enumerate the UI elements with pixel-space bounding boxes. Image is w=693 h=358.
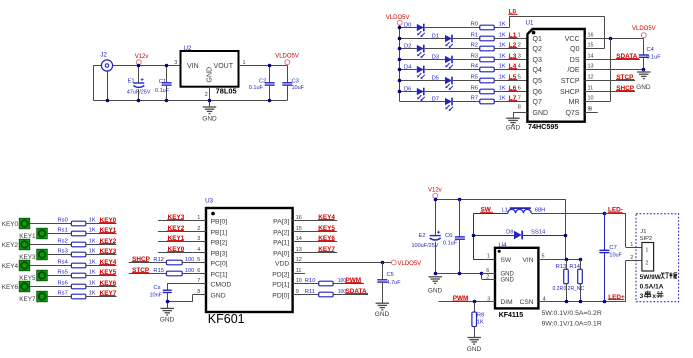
svg-text:2: 2 <box>205 92 208 98</box>
svg-text:VLDO5V: VLDO5V <box>632 26 656 32</box>
svg-text:1K: 1K <box>499 74 506 80</box>
svg-text:10: 10 <box>588 96 594 102</box>
svg-text:R10: R10 <box>305 278 316 284</box>
svg-text:100: 100 <box>185 257 194 263</box>
svg-text:2: 2 <box>518 43 521 49</box>
svg-text:GND: GND <box>207 67 214 83</box>
svg-text:D6: D6 <box>404 86 411 92</box>
svg-text:10uF: 10uF <box>609 253 622 259</box>
svg-text:D3: D3 <box>432 54 439 60</box>
svg-text:x: x <box>652 293 656 300</box>
svg-text:PC[1]: PC[1] <box>211 272 228 279</box>
svg-text:3: 3 <box>518 54 521 60</box>
svg-text:KF601: KF601 <box>208 312 245 326</box>
svg-text:4: 4 <box>543 297 546 303</box>
svg-text:D4: D4 <box>404 64 412 70</box>
svg-text:Q1: Q1 <box>533 36 542 43</box>
svg-text:5W/9W: 5W/9W <box>640 274 662 281</box>
svg-text:1K: 1K <box>89 269 96 275</box>
svg-text:Q7: Q7 <box>533 99 542 106</box>
svg-text:0.1uF: 0.1uF <box>443 240 458 246</box>
svg-text:J2: J2 <box>100 51 107 58</box>
svg-text:Rs2: Rs2 <box>58 238 68 244</box>
svg-text:1K: 1K <box>89 238 96 244</box>
svg-text:C1: C1 <box>159 79 166 85</box>
svg-text:C2: C2 <box>259 78 266 84</box>
svg-text:U2: U2 <box>184 45 192 52</box>
svg-text:R13: R13 <box>556 264 567 270</box>
svg-text:C7: C7 <box>609 245 616 251</box>
svg-text:Q6: Q6 <box>533 89 542 96</box>
svg-text:1K: 1K <box>89 217 96 223</box>
svg-text:PA[1]: PA[1] <box>273 240 289 247</box>
svg-text:D8: D8 <box>506 230 513 236</box>
svg-text:1K: 1K <box>89 280 96 286</box>
svg-text:VDD: VDD <box>275 261 289 268</box>
svg-text:C3: C3 <box>292 78 299 84</box>
svg-text:0.5A/1A: 0.5A/1A <box>640 284 664 291</box>
svg-text:R1: R1 <box>471 32 478 38</box>
svg-text:PB[3]: PB[3] <box>211 251 228 258</box>
svg-text:0.2R: 0.2R <box>553 286 564 292</box>
svg-text:10nF: 10nF <box>150 292 163 298</box>
svg-text:1K: 1K <box>89 290 96 296</box>
svg-text:Q7S: Q7S <box>565 110 579 117</box>
svg-text:2: 2 <box>630 255 633 261</box>
svg-text:R4: R4 <box>471 63 479 69</box>
svg-text:SW: SW <box>501 257 512 264</box>
svg-text:11: 11 <box>588 86 594 92</box>
svg-text:9W:0.1V/1.0A=0.1R: 9W:0.1V/1.0A=0.1R <box>542 321 602 328</box>
svg-text:PD[2]: PD[2] <box>272 272 289 279</box>
svg-text:GND: GND <box>202 116 217 123</box>
svg-text:VLDO5V: VLDO5V <box>398 261 422 267</box>
svg-text:1K: 1K <box>89 248 96 254</box>
svg-text:100uF/25V: 100uF/25V <box>412 243 439 249</box>
svg-text:PD[1]: PD[1] <box>272 282 289 289</box>
svg-text:R0: R0 <box>471 21 478 27</box>
svg-text:5: 5 <box>518 75 521 81</box>
svg-text:PA[0]: PA[0] <box>273 251 289 258</box>
svg-text:VIN: VIN <box>187 63 199 70</box>
svg-text:1K: 1K <box>89 227 96 233</box>
svg-text:R7: R7 <box>471 95 478 101</box>
svg-text:13: 13 <box>588 64 594 70</box>
svg-text:Rs5: Rs5 <box>58 269 68 275</box>
svg-text:GND: GND <box>533 110 549 117</box>
svg-text:CMOD: CMOD <box>211 282 232 289</box>
svg-text:MR: MR <box>569 99 580 106</box>
svg-text:1: 1 <box>630 242 633 248</box>
svg-text:PA[2]: PA[2] <box>273 230 289 237</box>
svg-text:D2: D2 <box>404 43 411 49</box>
svg-text:Rs4: Rs4 <box>58 259 69 265</box>
svg-text:GND: GND <box>636 84 651 91</box>
svg-text:1: 1 <box>243 60 246 66</box>
svg-text:1K: 1K <box>499 53 506 59</box>
svg-text:Cs: Cs <box>154 285 161 291</box>
svg-text:4.7uF: 4.7uF <box>387 280 402 286</box>
svg-text:1: 1 <box>487 254 490 260</box>
svg-text:L1: L1 <box>502 208 508 214</box>
svg-text:STCP: STCP <box>561 78 580 85</box>
svg-text:PB[2]: PB[2] <box>211 240 228 247</box>
svg-text:3: 3 <box>640 293 644 300</box>
svg-text:1K: 1K <box>499 32 506 38</box>
svg-text:CSN: CSN <box>520 299 534 306</box>
svg-text:D5: D5 <box>432 75 439 81</box>
svg-text:U3: U3 <box>205 198 213 205</box>
svg-text:15: 15 <box>588 43 594 49</box>
svg-text:1: 1 <box>518 33 521 39</box>
svg-text:16: 16 <box>588 33 594 39</box>
svg-text:R5: R5 <box>471 74 478 80</box>
svg-text:GND: GND <box>211 293 226 300</box>
svg-text:SS14: SS14 <box>531 230 546 236</box>
svg-text:47uF/25V: 47uF/25V <box>127 90 151 96</box>
svg-text:1K: 1K <box>499 95 506 101</box>
svg-text:1: 1 <box>645 248 648 254</box>
svg-text:0.2R_NC: 0.2R_NC <box>564 286 585 292</box>
svg-text:Q2: Q2 <box>533 46 542 53</box>
svg-text:VOUT: VOUT <box>214 63 234 70</box>
svg-text:DIM: DIM <box>501 299 513 306</box>
svg-text:DS: DS <box>570 57 580 64</box>
svg-text:4: 4 <box>518 64 521 70</box>
svg-text:3: 3 <box>487 297 490 303</box>
svg-text:VIN: VIN <box>523 257 534 264</box>
svg-text:E2: E2 <box>419 233 426 239</box>
svg-text:U1: U1 <box>526 20 534 27</box>
svg-text:1K: 1K <box>89 259 96 265</box>
svg-text:Rs7: Rs7 <box>58 290 68 296</box>
svg-text:VCC: VCC <box>565 36 580 43</box>
svg-text:1K: 1K <box>499 42 506 48</box>
svg-text:R8: R8 <box>477 312 484 318</box>
svg-text:/OE: /OE <box>567 67 579 74</box>
svg-text:GND: GND <box>467 346 482 353</box>
svg-text:5: 5 <box>542 254 545 260</box>
svg-text:100: 100 <box>185 268 194 274</box>
svg-text:Q0: Q0 <box>570 46 579 53</box>
svg-text:E1: E1 <box>128 78 135 84</box>
svg-text:9: 9 <box>589 107 592 113</box>
svg-text:VLDO5V: VLDO5V <box>275 54 299 60</box>
svg-text:14: 14 <box>588 54 594 60</box>
svg-text:PA[3]: PA[3] <box>273 219 289 226</box>
svg-text:0.1uF: 0.1uF <box>647 55 662 61</box>
svg-text:GND: GND <box>501 277 515 283</box>
svg-text:D1: D1 <box>432 33 439 39</box>
svg-text:C4: C4 <box>647 47 655 53</box>
svg-text:D7: D7 <box>432 96 439 102</box>
svg-text:R3: R3 <box>471 53 478 59</box>
svg-text:KEY4: KEY4 <box>2 263 19 270</box>
svg-text:3: 3 <box>174 60 177 66</box>
svg-text:Q4: Q4 <box>533 67 542 74</box>
svg-text:68H: 68H <box>535 208 546 214</box>
svg-text:U4: U4 <box>499 242 507 249</box>
svg-text:V12v: V12v <box>428 188 442 194</box>
svg-text:PB[1]: PB[1] <box>211 230 228 237</box>
svg-text:SIP2: SIP2 <box>640 236 653 242</box>
svg-text:1K: 1K <box>477 320 484 326</box>
svg-text:GND: GND <box>375 311 390 318</box>
svg-text:Rs1: Rs1 <box>58 227 68 233</box>
svg-text:KF4115: KF4115 <box>499 312 524 319</box>
svg-text:KEY7: KEY7 <box>19 296 36 303</box>
svg-text:J1: J1 <box>640 229 646 235</box>
svg-text:C6: C6 <box>445 233 452 239</box>
svg-text:6: 6 <box>518 86 521 92</box>
svg-text:R6: R6 <box>471 85 478 91</box>
svg-text:Rs3: Rs3 <box>58 248 68 254</box>
svg-text:PD[0]: PD[0] <box>272 293 289 300</box>
svg-text:1K: 1K <box>499 21 506 27</box>
svg-text:KEY2: KEY2 <box>2 242 19 249</box>
svg-text:0.1uF: 0.1uF <box>249 85 264 91</box>
svg-text:5W:0.1V/0.5A=0.2R: 5W:0.1V/0.5A=0.2R <box>542 310 602 317</box>
svg-text:8: 8 <box>518 105 521 111</box>
svg-text:Rs6: Rs6 <box>58 280 68 286</box>
svg-text:Q3: Q3 <box>533 57 542 64</box>
svg-text:PB[0]: PB[0] <box>211 219 228 226</box>
svg-text:KEY0: KEY0 <box>2 221 19 228</box>
svg-text:6: 6 <box>486 268 489 274</box>
svg-text:VLDO5V: VLDO5V <box>386 15 410 21</box>
svg-text:R2: R2 <box>471 42 478 48</box>
svg-text:C5: C5 <box>387 272 394 278</box>
svg-text:D0: D0 <box>404 22 411 28</box>
svg-text:GND: GND <box>160 317 175 324</box>
svg-text:0.1uF: 0.1uF <box>155 88 170 94</box>
svg-text:V12v: V12v <box>135 54 149 60</box>
svg-text:2: 2 <box>645 261 648 267</box>
svg-text:74HC595: 74HC595 <box>528 122 558 131</box>
svg-text:78L05: 78L05 <box>216 87 237 96</box>
svg-text:7: 7 <box>518 96 521 102</box>
svg-text:R11: R11 <box>305 289 315 295</box>
svg-text:1K: 1K <box>499 85 506 91</box>
svg-text:PC[0]: PC[0] <box>211 261 228 268</box>
svg-text:10uF: 10uF <box>292 85 305 91</box>
svg-text:SHCP: SHCP <box>560 89 580 96</box>
svg-text:R14: R14 <box>569 264 580 270</box>
svg-text:2: 2 <box>486 275 489 281</box>
svg-text:GND: GND <box>428 288 443 295</box>
svg-text:12: 12 <box>588 75 594 81</box>
svg-text:GND: GND <box>506 125 521 132</box>
svg-text:KEY6: KEY6 <box>2 284 19 291</box>
svg-text:1K: 1K <box>499 63 506 69</box>
svg-text:Rs0: Rs0 <box>58 217 68 223</box>
svg-text:Q5: Q5 <box>533 78 542 85</box>
